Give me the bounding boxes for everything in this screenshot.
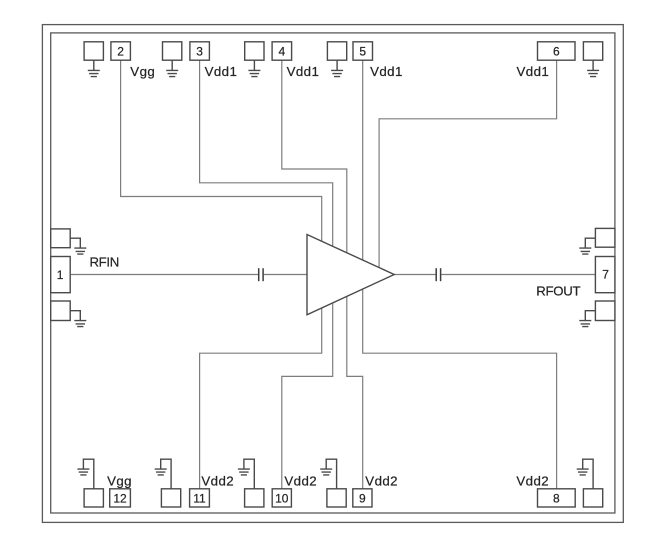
svg-text:Vdd1: Vdd1 [205,64,238,79]
svg-text:10: 10 [275,491,289,505]
svg-text:12: 12 [113,491,127,505]
svg-text:6: 6 [553,44,560,58]
svg-text:Vgg: Vgg [107,473,132,488]
svg-text:3: 3 [196,44,203,58]
svg-text:4: 4 [278,44,285,58]
svg-text:Vdd1: Vdd1 [517,64,550,79]
svg-text:9: 9 [359,491,366,505]
svg-text:RFIN: RFIN [90,255,119,270]
svg-text:Vdd2: Vdd2 [365,473,398,488]
svg-text:Vdd1: Vdd1 [287,64,320,79]
svg-text:Vdd2: Vdd2 [516,473,549,488]
svg-text:RFOUT: RFOUT [536,283,580,298]
svg-text:Vdd1: Vdd1 [370,64,403,79]
svg-text:Vdd2: Vdd2 [284,473,317,488]
svg-text:1: 1 [57,268,64,282]
svg-text:2: 2 [117,44,124,58]
svg-text:7: 7 [602,268,609,282]
svg-text:Vgg: Vgg [130,64,155,79]
svg-text:11: 11 [193,491,206,505]
svg-text:Vdd2: Vdd2 [201,473,234,488]
svg-text:5: 5 [359,44,366,58]
svg-text:8: 8 [553,491,560,505]
